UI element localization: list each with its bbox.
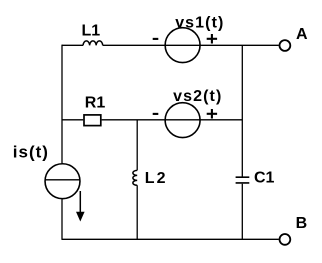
svg-text:R1: R1 [85, 94, 106, 111]
svg-text:vs1(t): vs1(t) [175, 14, 224, 31]
svg-text:B: B [296, 215, 308, 232]
svg-text:vs2(t): vs2(t) [173, 88, 222, 105]
svg-text:C1: C1 [254, 169, 275, 186]
svg-text:L2: L2 [145, 170, 168, 187]
svg-text:is(t): is(t) [13, 143, 49, 162]
svg-text:A: A [296, 26, 308, 43]
svg-text:L1: L1 [82, 22, 101, 39]
